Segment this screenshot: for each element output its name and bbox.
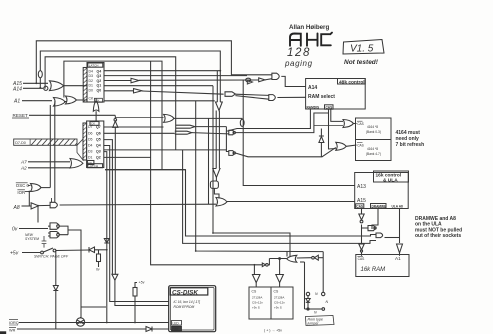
svg-text:A15: A15 [357,198,366,204]
bubble and-gate [368,226,376,231]
svg-text:+5v S: +5v S [274,306,282,310]
wire A13 into 16k box [243,80,355,186]
gate cluster to A14 [247,73,306,86]
svg-text:Q2: Q2 [96,156,101,160]
signal label A15 [12,81,48,87]
diode D4 [319,136,324,143]
or-gate OSC [31,184,51,192]
or-gate mid1 [164,114,243,122]
or-gate A7A2 [70,159,83,169]
svg-text:A7: A7 [20,160,27,165]
dart pair down [216,71,223,169]
IC U1 48k control box [306,79,366,110]
svg-text:A1: A1 [13,99,20,105]
label 0v [12,227,48,233]
signal label IOR [17,190,29,195]
svg-text:ULA A8: ULA A8 [392,204,404,208]
buffer Q2 [131,78,139,83]
svg-text:6v: 6v [96,268,100,272]
svg-text:CAS: CAS [357,143,364,147]
IC 4164 bank 0-3 [356,118,392,161]
wire WR with diode [17,327,169,332]
svg-text:CK: CK [89,96,95,100]
inverter pair small [262,259,269,267]
svg-text:CS+12v: CS+12v [252,301,263,305]
nand gates pair [42,223,106,318]
svg-text:Q7: Q7 [96,125,101,129]
svg-text:V1. 5: V1. 5 [350,44,374,55]
wire latch1 outputs [104,71,259,95]
wire 16k outputs [105,170,400,256]
signal label RESET [12,113,115,118]
svg-text:D4: D4 [88,144,93,148]
inverter right [312,252,324,292]
diode D3 [53,251,58,330]
wire latch2 outputs [104,127,229,323]
svg-text:IC 16, bor 14 [-17]: IC 16, bor 14 [-17] [174,300,201,304]
svg-text:OSC 0: OSC 0 [16,183,30,188]
svg-text:RAMDIS: RAMDIS [307,105,320,109]
svg-text:D2: D2 [89,79,94,83]
svg-text:Allan Høiberg: Allan Høiberg [289,24,329,31]
svg-text:A8: A8 [13,205,20,211]
inverter down1 [359,214,364,223]
buffer Q0 [134,89,143,93]
svg-text:LED: LED [173,321,180,325]
buffer down to ROM2 [276,258,284,287]
svg-text:+5v: +5v [10,251,19,257]
IC ROM 27128 pair [249,287,293,333]
svg-text:D3: D3 [89,74,94,78]
label IORQ [9,320,19,326]
signal label A1 [13,99,52,105]
wire mid vertical left [151,61,263,265]
svg-text:CAS: CAS [326,105,333,109]
wire top nest [36,41,376,244]
zener D2 [104,239,109,244]
bubble gate right2 [229,148,336,157]
buffer down to ROM1 [252,265,260,287]
IC latch 2 [83,121,104,168]
svg-text:CS-DISK: CS-DISK [172,289,198,296]
note DRAMWE sockets [415,216,462,239]
svg-text:27128A: 27128A [252,296,262,300]
svg-text:CS: CS [252,290,257,294]
signal label A7 [20,160,70,165]
note ROM type jumper [306,316,335,326]
buffer down small [112,274,169,305]
box CS-DISK [169,286,216,332]
or-gate A15 A14 [44,81,87,91]
buffer small pre-A14 [247,80,252,84]
bubble gate right1 [229,113,329,135]
svg-text:Q2: Q2 [97,79,102,83]
wire OSC up [29,101,55,206]
buffer dart mid1 [176,125,229,131]
IC 16k RAM box [356,255,409,277]
gate cluster to RAM select [225,92,306,101]
buffer A8 [31,203,38,209]
svg-text:A13: A13 [357,184,366,190]
svg-text:Q5: Q5 [96,138,101,142]
svg-text:4164 *8: 4164 *8 [367,125,378,129]
switch S1 [41,248,89,254]
svg-text:IOR: IOR [17,190,25,195]
svg-text:A2: A2 [20,166,27,171]
buffer dart mid2 [175,131,229,134]
or-gate center A8 [216,198,227,207]
svg-text:D7: D7 [88,125,93,129]
svg-text:D6: D6 [88,131,93,135]
and-gate A8 [38,198,57,208]
svg-text:CS: CS [274,290,279,294]
svg-text:jumper: jumper [307,322,320,326]
svg-text:Q4: Q4 [96,144,101,148]
note 4164 refresh [396,130,425,148]
wire rom area [300,261,305,263]
svg-text:D1: D1 [88,156,93,160]
title Allan Hoiberg [289,24,329,31]
svg-text:Q0: Q0 [97,89,102,93]
svg-text:paging: paging [284,59,313,68]
or-gate A1 [54,96,215,106]
svg-text:128: 128 [287,47,311,59]
svg-text:D7-D0: D7-D0 [15,141,26,145]
wire A8 long [38,202,355,223]
and-gate dram [376,233,383,238]
and-gate small center [210,181,219,199]
svg-text:Q1: Q1 [97,84,102,88]
svg-text:DRAMWE: DRAMWE [372,204,387,208]
svg-text:A14: A14 [12,87,22,93]
IC 4164 bank 4-7 [357,143,381,156]
wire center drops [196,86,324,257]
svg-text:& ULA: & ULA [383,178,398,184]
or-gate ROM select [269,255,311,262]
svg-text:16k RAM: 16k RAM [361,267,386,273]
label WR [9,328,16,333]
svg-text:D4: D4 [89,69,94,73]
svg-text:IORQ: IORQ [9,321,19,325]
note new system [25,233,39,241]
transistor Q1 [76,317,84,326]
resistor R2 pullup [133,281,145,323]
IC U2 16k control and ULA box [355,171,409,209]
note Not tested! [344,59,379,66]
buffer oval mid [240,119,244,126]
svg-text:D0: D0 [89,89,94,93]
buffer oval Q2 [246,78,251,82]
svg-text:(Bank 4-7): (Bank 4-7) [366,152,381,156]
or-gate cas2 [336,142,357,150]
dart down big2 [213,169,220,182]
svg-text:RESET: RESET [13,113,29,118]
svg-text:+5v: +5v [139,281,145,285]
diode D1 [89,247,99,253]
svg-text:Not tested!: Not tested! [344,59,379,66]
wire ram select down [241,117,243,120]
svg-text:27128A: 27128A [274,296,284,300]
scan artifact bottom-left corner [0,331,6,334]
IC latch 1 [83,63,104,103]
or-gate latch1 clock [93,99,99,122]
svg-text:CS+12v: CS+12v [274,301,285,305]
svg-text:NMI: NMI [173,327,179,331]
note switch page off [34,255,69,259]
svg-text:SYSTEM: SYSTEM [25,237,39,241]
signal label OSC [16,183,31,188]
or-gate cas1 [314,120,357,128]
label 128 handwritten [287,47,311,59]
svg-text:A14: A14 [308,85,317,91]
data bus D7-D0 hatched [14,139,83,160]
label paging handwritten [284,59,313,68]
svg-text:D3: D3 [88,150,93,154]
buffer latch2 clock [113,115,164,274]
svg-text:48k control: 48k control [339,79,365,85]
svg-text:N: N [326,300,329,304]
svg-text:out of their sockets: out of their sockets [415,233,461,239]
signal label A8 [13,205,32,211]
wire IORQ [19,322,169,324]
svg-text:N: N [314,311,317,315]
svg-text:CAS: CAS [357,122,364,126]
svg-text:RAM select: RAM select [308,94,335,100]
svg-text:D5: D5 [88,138,93,142]
resistor R1 [96,250,107,272]
svg-text:Q6: Q6 [96,131,101,135]
svg-text:Q4: Q4 [97,69,102,73]
label +5v [10,251,40,257]
svg-text:CAS: CAS [358,257,366,261]
buffer oval vertical [38,71,42,78]
svg-text:(Bank 0-3): (Bank 0-3) [366,130,381,134]
inverter down2 [359,244,364,252]
svg-text:Q3: Q3 [97,74,102,78]
svg-text:ROM EPROM: ROM EPROM [174,305,195,309]
svg-text:D1: D1 [89,84,94,88]
svg-text:Q3: Q3 [96,150,101,154]
svg-text:( + ) → +5v: ( + ) → +5v [264,329,282,333]
signal label A2 [20,166,70,171]
svg-text:LATCH: LATCH [88,164,98,168]
jumper pins [305,262,329,315]
svg-text:0v: 0v [12,227,18,233]
svg-text:LATCH: LATCH [89,64,99,68]
version box V1.5 [343,40,384,55]
svg-text:+5v S: +5v S [252,306,260,310]
wire 48k outputs [229,110,343,157]
signal label A14 [12,87,43,93]
svg-text:A1: A1 [395,256,401,261]
svg-text:WR: WR [9,329,16,333]
svg-text:N: N [315,292,318,296]
svg-text:4164 *8: 4164 *8 [367,147,378,151]
svg-text:CAS: CAS [356,204,363,208]
logo RHC handwritten [290,33,332,46]
buffer down A1 [397,244,403,253]
svg-text:7 bit refresh: 7 bit refresh [396,142,425,148]
svg-text:SWITCH: PAGE OFF: SWITCH: PAGE OFF [34,255,69,259]
